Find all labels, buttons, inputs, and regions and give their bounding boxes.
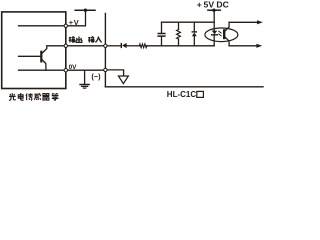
terminal circle 0V controller	[104, 68, 107, 71]
label 输出	[69, 37, 75, 43]
diode D1 cathode bar	[121, 43, 122, 48]
optocoupler LED cathode bar	[212, 34, 218, 36]
zener diode ZD1 triangle	[192, 33, 197, 37]
zener diode ZD1 cathode bar	[192, 31, 196, 33]
optocoupler LED triangle	[212, 31, 218, 35]
label 输入	[88, 37, 94, 43]
resistor R2 top lead	[178, 22, 180, 29]
transistor Q1 emitter	[42, 60, 46, 70]
svg-text:+ V: + V	[69, 18, 79, 27]
svg-text:(−): (−)	[91, 72, 101, 81]
optocoupler emitter	[225, 37, 229, 46]
wire +5V down to LED	[213, 10, 215, 30]
wire transistor base stub	[19, 55, 41, 57]
resistor R2 zigzag	[177, 30, 181, 40]
svg-text:+ 5V DC: + 5V DC	[197, 0, 229, 10]
top rail	[162, 21, 215, 23]
internal ground triangle (open)	[118, 76, 128, 84]
capacitor C1 bottom lead	[161, 37, 163, 46]
arrow to internal circuit (top)	[229, 21, 257, 23]
transistor Q1 collector	[42, 46, 64, 53]
resistor R1 inline zigzag	[139, 44, 147, 48]
label 光电传感器等	[9, 93, 16, 100]
terminal circle output	[64, 44, 67, 47]
svg-text:0V: 0V	[69, 64, 78, 71]
svg-text:HL-C1C: HL-C1C	[167, 90, 197, 99]
+V supply T-bar	[75, 9, 95, 11]
ground symbol	[80, 84, 89, 86]
sensor box (photoelectric sensor enclosure)	[2, 12, 66, 89]
arrow to internal circuit (bottom)	[229, 45, 257, 47]
capacitor C1 top lead	[161, 22, 163, 33]
junction dot on +5V bar	[212, 9, 215, 12]
controller box bottom edge	[105, 86, 263, 88]
optocoupler phototransistor bar	[223, 29, 225, 39]
terminal circle +V	[64, 24, 67, 27]
optocoupler LED lead down	[213, 35, 215, 46]
junction dot on +V bar	[84, 9, 87, 12]
label HL-C1C square	[197, 91, 204, 97]
zener diode ZD1 bottom lead	[193, 36, 195, 46]
diode D1 triangle	[122, 43, 127, 48]
wire 0V to internal triangle	[107, 70, 124, 76]
transistor Q1 emitter arrow	[43, 61, 46, 63]
+5V supply T-bar	[208, 9, 220, 11]
wire input line to diode	[107, 45, 121, 47]
wire 0V stub inside sensor	[19, 69, 65, 71]
transistor Q1 bar	[40, 51, 42, 63]
wire 0V between boxes	[67, 69, 103, 71]
optocoupler collector	[225, 22, 229, 30]
zener diode ZD1 top lead	[193, 22, 195, 31]
wire +V to supply bar	[67, 10, 85, 26]
wire diode to resistor	[127, 45, 140, 47]
capacitor C1 plates	[158, 33, 165, 35]
wire +V stub inside sensor	[19, 25, 65, 27]
controller box left edge	[104, 14, 106, 87]
ground lead	[84, 70, 86, 84]
terminal circle input	[104, 44, 107, 47]
optocoupler PC1 oval	[205, 28, 238, 42]
terminal circle 0V sensor	[64, 69, 67, 72]
wire resistor to LED	[147, 45, 214, 47]
resistor R2 bottom lead	[178, 39, 180, 46]
optocoupler light arrows	[219, 31, 221, 36]
wire output to input (between boxes)	[67, 45, 103, 47]
